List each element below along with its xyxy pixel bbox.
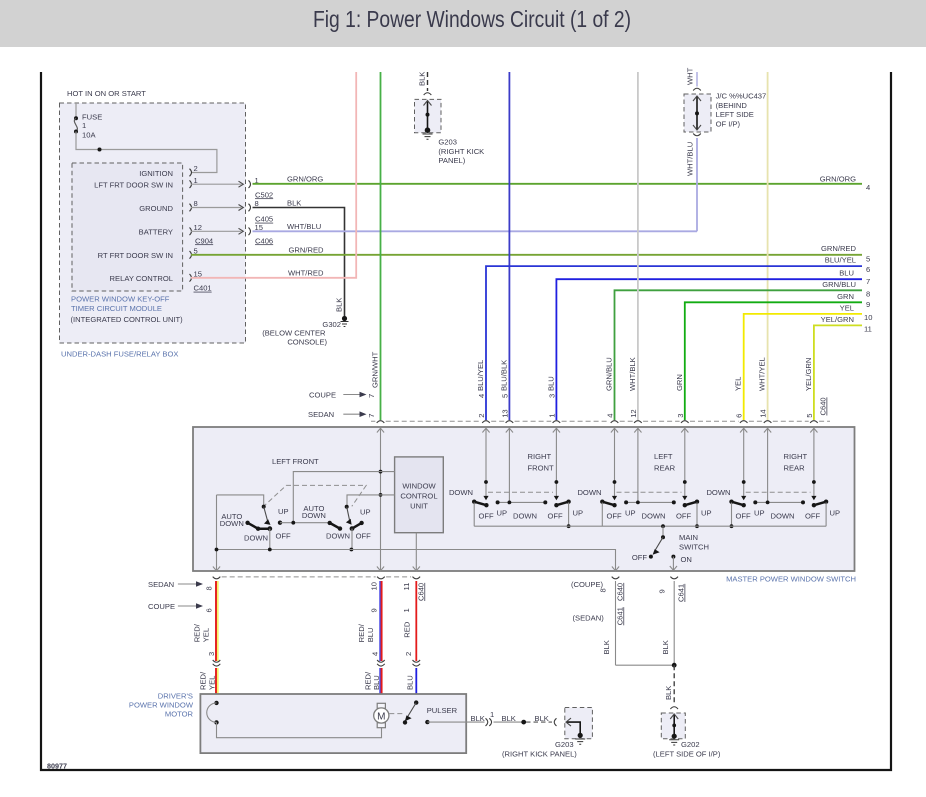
svg-text:(SEDAN): (SEDAN) — [573, 614, 605, 623]
svg-text:DRIVER'S: DRIVER'S — [158, 691, 193, 700]
svg-text:GRN/ORG: GRN/ORG — [820, 175, 856, 184]
wire WHT/BLU row (pin 15/C406 to J/C) — [253, 222, 698, 231]
pulser switch — [403, 700, 466, 724]
svg-text:OFF: OFF — [548, 511, 564, 520]
svg-text:14: 14 — [759, 409, 768, 417]
svg-text:DOWN: DOWN — [706, 488, 730, 497]
svg-text:TIMER CIRCUIT MODULE: TIMER CIRCUIT MODULE — [71, 304, 162, 313]
svg-text:COUPE: COUPE — [309, 391, 336, 400]
svg-text:FRONT: FRONT — [528, 464, 555, 473]
svg-text:WHT/BLU: WHT/BLU — [686, 142, 695, 176]
svg-text:COUPE: COUPE — [148, 602, 175, 611]
svg-text:BLK: BLK — [471, 714, 485, 723]
svg-text:(LEFT SIDE OF I/P): (LEFT SIDE OF I/P) — [653, 750, 721, 759]
svg-text:5: 5 — [866, 255, 870, 264]
svg-text:OFF: OFF — [736, 511, 752, 520]
junction connector J/C %%UC437 — [684, 92, 766, 136]
svg-text:OF I/P): OF I/P) — [716, 120, 741, 129]
wire main switch common BLK (coupe 8 C640 / sedan C641) — [571, 580, 624, 665]
svg-text:OFF: OFF — [805, 511, 821, 520]
svg-text:C640: C640 — [819, 397, 828, 415]
pin 2 IGNITION — [190, 169, 192, 177]
svg-text:LEFT: LEFT — [654, 452, 673, 461]
WCU output wire (pin 11 exit) — [415, 533, 417, 571]
svg-text:13: 13 — [500, 409, 509, 417]
svg-text:GRN/RED: GRN/RED — [821, 244, 857, 253]
wire BLU/YEL row + vertical — [476, 256, 870, 420]
svg-text:(BELOW CENTER: (BELOW CENTER — [262, 328, 326, 337]
svg-text:3: 3 — [676, 414, 685, 418]
svg-text:WHT/BLU: WHT/BLU — [287, 222, 321, 231]
svg-text:OFF: OFF — [607, 511, 623, 520]
pin 1 LFT FRT DOOR SW IN / C502 — [190, 176, 274, 199]
ground G203 (right kick panel, bottom) — [502, 708, 592, 759]
left rear window switch section — [577, 452, 711, 528]
svg-text:M: M — [377, 711, 385, 722]
connector C640 dashed line (top) — [371, 420, 830, 422]
svg-text:UP: UP — [497, 509, 508, 518]
svg-text:7: 7 — [367, 394, 376, 398]
svg-text:RED/: RED/ — [193, 623, 202, 642]
svg-text:BLK: BLK — [602, 640, 611, 654]
window control unit — [395, 457, 444, 533]
svg-text:J/C %%UC437: J/C %%UC437 — [716, 92, 767, 101]
svg-text:RED: RED — [403, 621, 412, 638]
left front auto-down linkage (dashed) — [263, 485, 367, 507]
wire BLK dashed to G202 — [664, 665, 678, 709]
wire GRN/WHT vertical (top to master switch pin 7) — [371, 72, 381, 420]
svg-text:HOT IN ON OR START: HOT IN ON OR START — [67, 89, 146, 98]
main switch — [632, 524, 709, 570]
svg-text:C641: C641 — [677, 584, 686, 602]
svg-text:OFF: OFF — [276, 531, 292, 540]
svg-text:GRN/RED: GRN/RED — [289, 246, 325, 255]
svg-text:BLK: BLK — [287, 198, 301, 207]
svg-text:C401: C401 — [194, 284, 212, 293]
svg-text:2: 2 — [404, 652, 413, 656]
ground G203 (right kick panel, top) — [415, 99, 485, 165]
svg-text:4: 4 — [477, 394, 486, 398]
svg-text:OFF: OFF — [479, 511, 495, 520]
svg-text:Fig 1: Power Windows Circuit (: Fig 1: Power Windows Circuit (1 of 2) — [313, 6, 631, 32]
svg-text:G202: G202 — [681, 740, 700, 749]
svg-text:GRN: GRN — [675, 374, 684, 391]
svg-text:BLK: BLK — [418, 72, 427, 86]
wire GRN row + vertical — [675, 292, 870, 420]
pin exit arrows at master switch bottom — [213, 567, 619, 571]
svg-text:RED/: RED/ — [357, 623, 366, 642]
svg-text:MOTOR: MOTOR — [165, 709, 194, 718]
svg-text:PULSER: PULSER — [427, 706, 458, 715]
svg-text:BLK: BLK — [664, 686, 673, 700]
wire WHT (top to J/C UC437) — [686, 67, 701, 90]
svg-text:BLK: BLK — [661, 640, 670, 654]
svg-text:DOWN: DOWN — [326, 531, 350, 540]
svg-text:YEL: YEL — [208, 676, 217, 690]
svg-text:5: 5 — [500, 394, 509, 398]
power window key-off timer circuit module — [72, 163, 183, 291]
svg-text:9: 9 — [866, 300, 870, 309]
splice dot on fuse feed — [98, 148, 102, 152]
svg-text:BLK: BLK — [502, 714, 516, 723]
svg-text:4: 4 — [371, 652, 380, 656]
svg-text:SEDAN: SEDAN — [308, 410, 334, 419]
node SEDAN pin row (bottom) — [148, 580, 213, 591]
svg-text:9: 9 — [369, 608, 378, 612]
svg-text:C406: C406 — [255, 236, 273, 245]
svg-text:UP: UP — [573, 509, 584, 518]
svg-text:11: 11 — [402, 583, 411, 591]
svg-text:WHT/BLK: WHT/BLK — [628, 357, 637, 391]
svg-text:YEL/GRN: YEL/GRN — [821, 315, 854, 324]
svg-text:BLK: BLK — [535, 714, 549, 723]
svg-text:8: 8 — [866, 290, 870, 299]
svg-text:UP: UP — [830, 509, 841, 518]
svg-text:C640: C640 — [615, 583, 624, 601]
wire pin8 vertical (exit) — [216, 495, 218, 571]
svg-text:(RIGHT KICK PANEL): (RIGHT KICK PANEL) — [502, 750, 577, 759]
svg-text:REAR: REAR — [784, 464, 806, 473]
svg-text:RELAY CONTROL: RELAY CONTROL — [110, 274, 173, 283]
node COUPE pin row (bottom) — [148, 602, 213, 613]
svg-text:BLK: BLK — [335, 298, 344, 312]
motor regulator arc — [207, 701, 382, 738]
svg-text:7: 7 — [367, 414, 376, 418]
svg-text:WHT/YEL: WHT/YEL — [758, 357, 767, 391]
svg-text:SEDAN: SEDAN — [148, 580, 174, 589]
svg-text:PANEL): PANEL) — [438, 156, 465, 165]
svg-text:(INTEGRATED CONTROL UNIT): (INTEGRATED CONTROL UNIT) — [71, 315, 184, 324]
svg-text:UP: UP — [360, 507, 371, 516]
svg-text:6: 6 — [204, 608, 213, 612]
wire joining BLK grounds — [616, 664, 675, 666]
wire BLK row (pin 8 to G302) — [253, 198, 345, 317]
wire BLK dashed (top to G203) — [418, 72, 432, 95]
svg-text:ON: ON — [681, 555, 692, 564]
svg-text:9: 9 — [658, 589, 667, 593]
node COUPE pin row (top) — [309, 391, 376, 400]
wire RED/YEL (pin 8/6 to motor) — [193, 581, 221, 694]
pulser linkage (dashed) — [389, 713, 404, 715]
connector C640/C641 dashed line (bottom) — [222, 576, 411, 578]
svg-text:UP: UP — [701, 509, 712, 518]
svg-text:WINDOW: WINDOW — [402, 481, 436, 490]
svg-text:GRN/ORG: GRN/ORG — [287, 175, 323, 184]
svg-text:4: 4 — [866, 183, 870, 192]
wire WHT/BLU below J/C down to row — [686, 138, 698, 231]
svg-text:12: 12 — [629, 409, 638, 417]
svg-text:SWITCH: SWITCH — [679, 543, 709, 552]
pin arcs and numbers at master switch top — [377, 394, 818, 423]
svg-text:1: 1 — [194, 176, 198, 185]
pin entry arrows inside master switch top — [377, 428, 818, 502]
svg-text:G203: G203 — [438, 138, 457, 147]
wire to WCU upper — [293, 472, 394, 523]
pin 15 RELAY CONTROL / C401 — [190, 274, 192, 282]
svg-text:10: 10 — [369, 582, 378, 590]
svg-text:(COUPE): (COUPE) — [571, 580, 604, 589]
svg-text:8: 8 — [194, 199, 198, 208]
master power window switch box — [193, 427, 855, 571]
driver's power window motor box — [200, 694, 466, 753]
svg-text:RED/: RED/ — [363, 671, 372, 690]
svg-text:BLU: BLU — [372, 675, 381, 690]
svg-text:DOWN: DOWN — [220, 519, 244, 528]
wire BLU row + vertical — [546, 269, 870, 420]
svg-text:6: 6 — [866, 265, 870, 274]
title bar — [0, 0, 926, 47]
svg-text:OFF: OFF — [676, 511, 692, 520]
svg-text:OFF: OFF — [632, 553, 648, 562]
svg-text:(BEHIND: (BEHIND — [716, 101, 748, 110]
svg-text:YEL: YEL — [840, 303, 854, 312]
wire YEL row + vertical — [734, 303, 873, 420]
right rear window switch section — [706, 452, 840, 528]
wire YEL/GRN row + vertical — [804, 315, 872, 420]
svg-text:UNIT: UNIT — [410, 502, 428, 511]
pin 5 RT FRT DOOR SW IN — [190, 251, 192, 259]
svg-text:8: 8 — [598, 588, 607, 592]
svg-text:1: 1 — [490, 710, 494, 719]
svg-text:12: 12 — [194, 223, 202, 232]
svg-text:C904: C904 — [195, 236, 213, 245]
svg-text:4: 4 — [606, 414, 615, 418]
svg-text:WHT/RED: WHT/RED — [288, 269, 324, 278]
svg-text:IGNITION: IGNITION — [139, 169, 173, 178]
svg-text:GRN/BLU: GRN/BLU — [605, 357, 614, 391]
svg-text:UP: UP — [754, 509, 765, 518]
svg-text:BLU: BLU — [406, 675, 415, 690]
svg-text:MASTER POWER WINDOW SWITCH: MASTER POWER WINDOW SWITCH — [726, 575, 856, 584]
wire left front switch 1 feed — [217, 495, 264, 506]
svg-text:UP: UP — [625, 509, 636, 518]
svg-text:5: 5 — [805, 414, 814, 418]
wire BLU/BLK vertical (top to right front switch) — [499, 72, 509, 420]
svg-text:BLU: BLU — [546, 376, 555, 391]
svg-text:YEL/GRN: YEL/GRN — [804, 358, 813, 391]
svg-text:C641: C641 — [615, 607, 624, 625]
svg-text:DOWN: DOWN — [449, 488, 473, 497]
switch frame bus — [474, 525, 826, 527]
wire pin7 vertical through box to pin 10 exit — [380, 472, 382, 571]
svg-text:RIGHT: RIGHT — [528, 452, 552, 461]
motor M1 — [374, 703, 389, 727]
svg-text:GRN/BLU: GRN/BLU — [822, 280, 856, 289]
svg-text:GRN: GRN — [837, 292, 854, 301]
wire RED/BLU (pin 10/9 to motor) — [357, 581, 385, 694]
svg-text:MAIN: MAIN — [679, 533, 698, 542]
svg-text:BLU: BLU — [839, 269, 854, 278]
wire GRN/BLU row + vertical — [605, 280, 871, 420]
svg-text:RT FRT DOOR SW IN: RT FRT DOOR SW IN — [98, 251, 173, 260]
svg-text:11: 11 — [864, 324, 872, 333]
pin 8 GROUND / C405 — [190, 199, 274, 224]
svg-text:2: 2 — [477, 414, 486, 418]
svg-text:POWER WINDOW: POWER WINDOW — [129, 700, 194, 709]
svg-text:DOWN: DOWN — [302, 511, 326, 520]
svg-text:6: 6 — [735, 414, 744, 418]
ground G202 (left side of I/P) — [653, 713, 721, 759]
svg-text:RIGHT: RIGHT — [784, 452, 808, 461]
right front window switch section — [449, 452, 583, 528]
svg-text:1: 1 — [402, 608, 411, 612]
svg-text:OFF: OFF — [356, 531, 372, 540]
svg-text:BATTERY: BATTERY — [139, 228, 173, 237]
svg-text:3: 3 — [207, 652, 216, 656]
svg-text:WHT: WHT — [686, 67, 695, 85]
svg-text:3: 3 — [547, 394, 556, 398]
svg-text:10: 10 — [864, 313, 872, 322]
svg-text:1: 1 — [547, 414, 556, 418]
wire to WCU lower — [347, 495, 395, 506]
svg-text:C502: C502 — [255, 190, 273, 199]
wire WHT/BLK vertical (top to left rear switch) — [628, 72, 638, 420]
under-dash fuse/relay box — [60, 103, 246, 343]
wire GRN/ORG row (pin 1 to right edge) — [253, 175, 871, 192]
svg-text:10A: 10A — [82, 130, 96, 139]
svg-text:DOWN: DOWN — [244, 533, 268, 542]
fuse F1 10A — [74, 103, 102, 139]
svg-text:BLU/YEL: BLU/YEL — [825, 256, 856, 265]
svg-text:BLU/BLK: BLU/BLK — [499, 360, 508, 391]
svg-text:7: 7 — [866, 277, 870, 286]
svg-text:BLU: BLU — [366, 628, 375, 643]
svg-text:YEL: YEL — [734, 377, 743, 391]
svg-text:YEL: YEL — [201, 628, 210, 642]
wire WHT/RED (pin 15 up to top) — [191, 72, 356, 278]
ground G302 — [262, 316, 348, 347]
svg-text:POWER WINDOW KEY-OFF: POWER WINDOW KEY-OFF — [71, 295, 170, 304]
svg-text:G203: G203 — [555, 740, 574, 749]
left front switch 1 (driver auto down) — [220, 505, 330, 550]
left front common bus to C640 pin 8 exit — [217, 550, 616, 572]
svg-text:DOWN: DOWN — [513, 511, 537, 520]
svg-text:UNDER-DASH FUSE/RELAY BOX: UNDER-DASH FUSE/RELAY BOX — [61, 350, 178, 359]
svg-text:LEFT FRONT: LEFT FRONT — [272, 457, 319, 466]
svg-text:CONSOLE): CONSOLE) — [287, 338, 327, 347]
svg-text:CONTROL: CONTROL — [400, 492, 437, 501]
svg-text:BLU/YEL: BLU/YEL — [476, 360, 485, 391]
svg-text:DOWN: DOWN — [642, 511, 666, 520]
svg-text:REAR: REAR — [654, 464, 676, 473]
wire GRN/RED row (pin 5 to right edge) — [191, 244, 870, 263]
pin 12 BATTERY / C904 C406 — [190, 223, 274, 245]
left front switch 2 — [326, 505, 371, 552]
svg-text:GROUND: GROUND — [139, 204, 173, 213]
wire WHT/YEL vertical (top to right rear switch) — [758, 72, 768, 420]
svg-text:UP: UP — [278, 507, 289, 516]
svg-text:2: 2 — [194, 164, 198, 173]
svg-text:RED/: RED/ — [199, 671, 208, 690]
wire fuse to pin 2 — [76, 132, 217, 173]
wire BLK motor to G203 — [466, 710, 556, 726]
wire RED then BLU (pin 11/1 to pulser) — [402, 581, 425, 694]
svg-text:80977: 80977 — [47, 762, 67, 771]
svg-text:DOWN: DOWN — [577, 488, 601, 497]
svg-text:(RIGHT KICK: (RIGHT KICK — [438, 147, 484, 156]
svg-text:GRN/WHT: GRN/WHT — [371, 351, 380, 388]
svg-text:C640: C640 — [416, 583, 425, 601]
svg-text:8: 8 — [204, 586, 213, 590]
svg-text:LFT FRT DOOR SW IN: LFT FRT DOOR SW IN — [94, 181, 173, 190]
svg-text:1: 1 — [82, 121, 86, 130]
svg-text:DOWN: DOWN — [771, 511, 795, 520]
exit pin arcs below box — [213, 577, 678, 579]
svg-text:LEFT SIDE: LEFT SIDE — [716, 110, 754, 119]
wire main switch ON BLK (9 C641) — [658, 581, 686, 665]
node SEDAN pin row (top) — [308, 410, 376, 419]
